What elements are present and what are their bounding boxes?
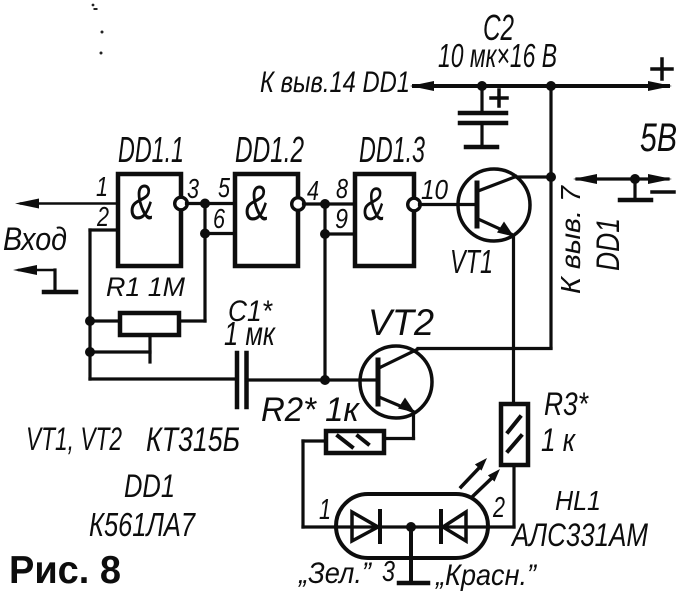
wire gate3 inputs down: [323, 234, 326, 380]
svg-text:10: 10: [421, 174, 448, 205]
dust specks: [92, 4, 104, 55]
label 1 к: [541, 422, 577, 458]
node junction rail top: [546, 81, 556, 91]
wire C1 to VT2 base: [247, 378, 379, 381]
svg-text:&: &: [363, 177, 385, 230]
svg-text:5: 5: [218, 172, 230, 203]
label pin 8: [336, 173, 348, 204]
wire pin9 stub: [325, 204, 355, 234]
label R2* 1к: [261, 391, 361, 429]
wire gate2 output to gate3: [304, 202, 356, 205]
svg-text:Рис. 8: Рис. 8: [9, 549, 121, 592]
label R3*: [544, 386, 589, 422]
wire R1 left: [90, 319, 120, 322]
svg-text:1: 1: [96, 171, 108, 202]
gate DD1.1: [118, 174, 187, 266]
minus terminal symbol: [620, 179, 674, 200]
label DD1.1: [118, 129, 184, 170]
node junction VT1 collector: [546, 172, 556, 182]
svg-text:2: 2: [492, 492, 505, 524]
label Рис. 8: [9, 549, 121, 592]
svg-text:6: 6: [213, 203, 225, 234]
svg-text:АЛС331АМ: АЛС331АМ: [510, 517, 648, 553]
node junction pin6: [200, 229, 210, 239]
label DD1.3: [359, 129, 425, 170]
node junction C2 top: [477, 81, 487, 91]
svg-text:VT2: VT2: [368, 302, 434, 343]
gate DD1.3: [355, 174, 420, 266]
svg-text:DD1.1: DD1.1: [118, 129, 184, 170]
svg-text:VT1: VT1: [450, 243, 493, 280]
svg-text:1 к: 1 к: [541, 422, 577, 458]
plus terminal label top right: [652, 59, 672, 79]
label pin 3 HL1: [382, 556, 395, 588]
svg-text:„Зел.”: „Зел.”: [297, 557, 373, 590]
label VT2: [368, 302, 434, 343]
wire R3 bottom to HL1 pin2: [488, 465, 514, 527]
led emission arrows: [461, 458, 500, 497]
label C1*: [228, 295, 273, 328]
svg-text:3: 3: [382, 556, 395, 588]
node junction HL1 common: [406, 522, 416, 532]
label pin 6: [213, 203, 225, 234]
label pin 3: [187, 173, 199, 204]
node junction pin8: [320, 199, 330, 209]
svg-text:5В: 5В: [640, 116, 677, 160]
capacitor C2: [460, 86, 507, 147]
label DD1.2: [235, 129, 304, 170]
svg-text:8: 8: [336, 173, 348, 204]
svg-text:DD1: DD1: [590, 218, 626, 271]
label pin 1 HL1: [319, 494, 331, 526]
label R1 1М: [106, 272, 185, 302]
label К выв.14 DD1: [260, 66, 410, 99]
svg-text:„Красн.”: „Красн.”: [434, 559, 538, 592]
diode green HL1 left: [352, 511, 380, 542]
label pin 2: [96, 201, 109, 232]
svg-text:К выв.14 DD1: К выв.14 DD1: [260, 66, 410, 99]
transistor VT2: [360, 346, 432, 418]
node junction tap: [85, 347, 95, 357]
label DD1: [124, 468, 175, 504]
node junction pin9: [320, 229, 330, 239]
wire VT1 collector to rail: [516, 175, 551, 178]
led assembly HL1: [336, 494, 488, 558]
svg-text:R2* 1к: R2* 1к: [261, 391, 361, 429]
svg-text:1 мк: 1 мк: [224, 315, 276, 352]
svg-text:2: 2: [96, 201, 109, 232]
node junction R1 left: [85, 316, 95, 326]
resistor R1: [120, 313, 179, 335]
wire input pin1 with arrow: [15, 199, 118, 209]
label pin 10: [421, 174, 448, 205]
svg-text:VT1, VT2: VT1, VT2: [26, 421, 122, 457]
node junction 5V: [630, 174, 640, 184]
svg-text:HL1: HL1: [555, 485, 601, 516]
ground input common: [44, 290, 76, 295]
node junction DD1.3 input feed: [320, 375, 330, 385]
wire R2 left down to HL1 pin1: [303, 441, 336, 527]
svg-text:К выв. 7: К выв. 7: [555, 185, 586, 294]
label VT1, VT2 КТ315Б: [26, 421, 240, 459]
wire gate3 output to VT1 base: [420, 203, 478, 206]
svg-text:Вход: Вход: [3, 221, 67, 257]
svg-text:КТ315Б: КТ315Б: [146, 421, 240, 459]
wire top supply rail: [410, 81, 672, 91]
svg-text:К561ЛА7: К561ЛА7: [89, 506, 196, 543]
label pin 4: [307, 175, 319, 206]
wire input common arrow: [13, 265, 55, 291]
label HL1: [555, 485, 601, 516]
gate DD1.2: [235, 174, 304, 266]
label pin 9: [335, 203, 348, 234]
wire feedback down to R1: [179, 234, 205, 322]
wire gate1 output to gate2: [187, 202, 236, 205]
svg-text:R3*: R3*: [544, 386, 589, 422]
wire pin6 stub: [205, 204, 235, 234]
node junction pin3: [200, 199, 210, 209]
diode red HL1 right: [441, 511, 466, 542]
label C2: [483, 7, 514, 48]
svg-text:&: &: [245, 175, 269, 231]
wire VT2 collector to rail: [418, 347, 551, 350]
wire HL1 pin3: [409, 527, 413, 582]
wire VT2 emitter to R2: [384, 412, 414, 439]
svg-text:4: 4: [307, 175, 319, 206]
svg-text:DD1.2: DD1.2: [235, 129, 304, 170]
label Вход: [3, 221, 67, 257]
label 5 В: [640, 116, 677, 160]
capacitor C1: [237, 353, 247, 407]
label VT1: [450, 243, 493, 280]
resistor R2: [326, 431, 384, 453]
wire bottom rail to C1: [90, 377, 237, 380]
wire pin2 left vertical: [90, 230, 118, 379]
transistor VT1: [458, 169, 530, 241]
label Красн: [434, 559, 538, 592]
svg-text:DD1.3: DD1.3: [359, 129, 425, 170]
svg-text:DD1: DD1: [124, 468, 175, 504]
svg-text:3: 3: [187, 173, 199, 204]
resistor R3: [501, 404, 528, 465]
wire 5V double arrow terminal: [573, 174, 672, 184]
label К561ЛА7: [89, 506, 196, 543]
wire VT1 emitter down to R3: [512, 236, 515, 404]
svg-text:R1 1М: R1 1М: [106, 272, 185, 302]
svg-text:&: &: [130, 174, 154, 230]
wire supply rail vertical: [549, 86, 552, 348]
svg-text:1: 1: [319, 494, 331, 526]
label pin 5: [218, 172, 230, 203]
label pin 1: [96, 171, 108, 202]
svg-text:9: 9: [335, 203, 348, 234]
label Зел: [297, 557, 373, 590]
label АЛС331АМ: [510, 517, 648, 553]
ground HL1 pin3: [399, 581, 428, 586]
wire R1 tap: [90, 335, 150, 362]
label 10 мк x 16 В: [438, 37, 557, 74]
label 1 мк: [224, 315, 276, 352]
label pin 2 HL1: [492, 492, 505, 524]
svg-text:10 мк×16 В: 10 мк×16 В: [438, 37, 557, 74]
label К выв.7 DD1 rotated: [555, 185, 626, 294]
